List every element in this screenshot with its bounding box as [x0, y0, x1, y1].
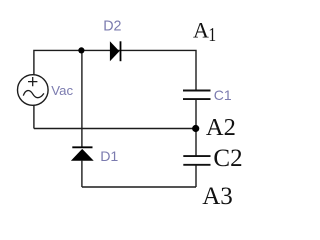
- AC source sine wave: [23, 91, 44, 98]
- wire: middle vertical from top junction down to D1 cathode: [81, 50, 83, 147]
- diode D2 cathode bar: [120, 41, 122, 61]
- wire: right vertical C1 bottom to C2 top (through node A2): [195, 99, 197, 156]
- AC source Vac: circle: [18, 75, 49, 106]
- wire: bottom rail: [82, 186, 196, 188]
- capacitor C1 plates: [183, 91, 211, 100]
- node A2 junction dot: [192, 125, 199, 132]
- wire: source bottom down to mid rail: [33, 105, 35, 128]
- wire: D1 anode down to bottom rail: [81, 161, 83, 187]
- diode D1 triangle: [71, 149, 94, 161]
- svg-text:A3: A3: [202, 183, 233, 210]
- wire: top rail from source top corner across to right corner and down to C1: [34, 50, 196, 89]
- svg-text:Vac: Vac: [51, 83, 73, 98]
- diode D2 triangle: [110, 41, 120, 61]
- svg-text:D1: D1: [100, 149, 118, 165]
- svg-text:D2: D2: [103, 19, 121, 35]
- diode D1 cathode bar: [72, 146, 92, 148]
- svg-text:C1: C1: [214, 87, 232, 103]
- svg-text:C2: C2: [213, 145, 242, 172]
- svg-text:1: 1: [208, 23, 216, 45]
- wire: mid horizontal rail from source to node A2: [34, 128, 196, 130]
- node: junction dot at top of middle branch: [78, 47, 84, 53]
- svg-text:A2: A2: [206, 114, 236, 141]
- capacitor C2 plates: [183, 156, 210, 165]
- AC source plus sign: [28, 77, 37, 86]
- wire: right vertical C2 bottom to bottom rail: [195, 165, 197, 187]
- svg-text:A: A: [193, 17, 209, 42]
